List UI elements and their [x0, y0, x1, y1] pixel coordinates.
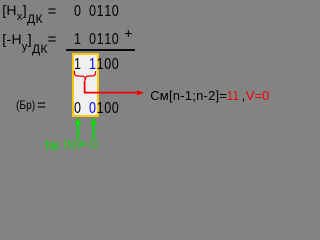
node: operand 2 bits 0110: [89, 32, 119, 48]
green arrow to bit k: [75, 117, 81, 138]
node: comma separator: [242, 89, 246, 102]
node: equals sign row 1: [48, 4, 57, 19]
node: equals sign result row: [37, 98, 46, 113]
node: overflow annotation text Cm[n-1;n-2]=11: [150, 89, 242, 102]
node: operand 2 sign bit 1: [74, 32, 81, 48]
node: result sign bit 0: [74, 101, 81, 117]
node: equals sign row 2: [48, 32, 57, 47]
node: highlight box around sign bits column: [72, 53, 99, 117]
node: green label №: [45, 139, 59, 153]
green arrow to bit k-1: [90, 117, 96, 138]
node: overflow flag V=0: [246, 89, 270, 102]
node: operand 1 bits 0110: [89, 4, 119, 20]
node: sum bits 1100 (first bit blue, in box): [89, 57, 119, 73]
node: operand 1 label [Hx]dk: [2, 3, 43, 18]
node: green label [k-1]: [77, 139, 97, 150]
node: green label [k]: [64, 139, 75, 150]
node: sum sign bit 1 (in box): [74, 57, 81, 73]
wire: sum line (addition rule): [66, 49, 135, 51]
annotation: red underbrace and elbow arrow, green bit pointers: [0, 0, 284, 154]
node: result bits 0100 (first bit blue): [89, 101, 119, 117]
node: operand 2 label [-Hy]dk: [2, 32, 48, 47]
node: result label (Бр): [16, 99, 35, 111]
node: plus sign: [124, 26, 132, 40]
node: operand 1 sign bit 0: [74, 4, 81, 20]
red underbrace under sign bits: [74, 71, 95, 81]
red elbow arrow from brace to annotation text: [85, 81, 138, 93]
